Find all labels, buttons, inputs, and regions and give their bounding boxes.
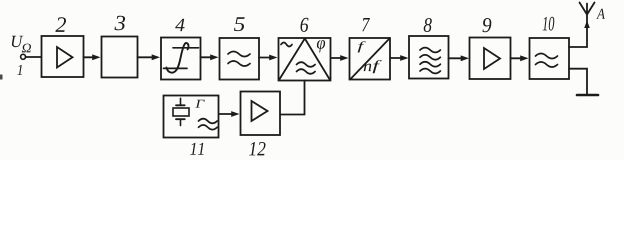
wire block 6 to 7 [331,57,342,59]
wire block 5 to 6 [259,57,271,59]
label 12 [249,142,265,155]
scan artifact left edge [0,75,3,80]
block 6 modulator box [279,38,331,81]
wire input to block 2 [25,56,41,58]
label f in block 7 [358,41,366,52]
block 8 tilde 3 [420,62,440,67]
label 4 [175,19,184,31]
block 6 tilde 2 [297,69,316,74]
wire block 8 to 9 [449,57,463,59]
antenna feed up-arrow [584,21,590,29]
block 4 S-curve [167,43,189,73]
block 4 lower axis line [164,67,188,69]
block 11 tilde 2 [199,125,218,130]
block 9 box [470,38,511,80]
crystal bottom plate [176,118,185,120]
arrowhead into block 5 [210,54,218,60]
label 11 [190,143,203,155]
block 11 oscillator box [164,96,219,138]
filter tilde 2 block 5 [228,61,250,66]
arrowhead into block 3 [92,54,100,60]
block 6 left diagonal [279,39,305,81]
label G generator in block 11 [195,100,204,108]
label f2 in block 7 [373,60,382,73]
label 10 [543,17,555,31]
wire block 2 to 3 [84,56,95,58]
label n in block 7 [364,64,372,72]
crystal rectangle [173,108,189,116]
block 8 tilde 1 [420,48,440,53]
block 3 box (empty) [102,37,138,78]
block 2 box [42,36,84,77]
block 6 sine symbol ~ [281,43,292,47]
wire block 12 to block 6 [281,81,305,115]
label A antenna [596,9,605,19]
block 7 multiplier box [350,38,391,80]
arrowhead into block 10 [520,55,528,61]
arrowhead into block 4 [152,54,160,60]
label U input [12,36,23,47]
arrowhead into block 8 [400,55,408,61]
label 2 [55,17,66,32]
wire block 3 to 4 [138,56,154,58]
label Omega subscript [22,44,31,53]
block 5 box [220,38,260,80]
wire block 9 to 10 [511,57,523,59]
amplifier triangle block 2 [57,47,73,68]
label 3 [115,16,126,31]
block 8 tilde 4 [420,69,440,74]
antenna symbol [580,3,595,15]
block 12 box [241,92,281,136]
label 9 [483,18,492,32]
label 6 [301,18,309,32]
block 6 right diagonal [305,39,330,81]
arrowhead into block 9 [461,55,469,61]
arrowhead into block 12 [231,111,239,117]
label 7 [362,18,370,31]
wire block 11 to 12 [219,113,233,115]
block 7 diagonal [351,39,390,80]
label 8 [424,18,432,32]
block 10 box [530,38,570,79]
arrowhead into block 6 [269,55,277,61]
block 8 tilde 2 [420,55,440,60]
crystal bottom lead [180,120,182,125]
block 10 tilde 2 [536,62,558,67]
label 1 [17,65,22,75]
label 5 [234,17,245,31]
ground bar [577,94,598,97]
block 6 tilde 1 [297,62,316,67]
block 10 tilde 1 [536,54,558,59]
crystal top plate [176,104,185,106]
filter tilde 1 block 5 [228,52,250,57]
block 4 upper axis line [173,47,199,49]
crystal top lead [180,98,182,104]
block 11 tilde 1 [199,119,218,124]
label phi in block 6 [317,40,325,52]
wire block 10 to antenna [569,15,587,48]
block 4 box [161,38,201,80]
arrowhead into block 7 [340,55,348,61]
amplifier triangle block 9 [484,48,500,69]
input terminal circle [21,54,26,59]
wire block 10 to ground [569,69,587,94]
amplifier triangle block 12 [252,101,268,121]
wire block 4 to 5 [201,56,213,58]
block 8 box [409,36,449,79]
wire block 7 to 8 [391,57,403,59]
